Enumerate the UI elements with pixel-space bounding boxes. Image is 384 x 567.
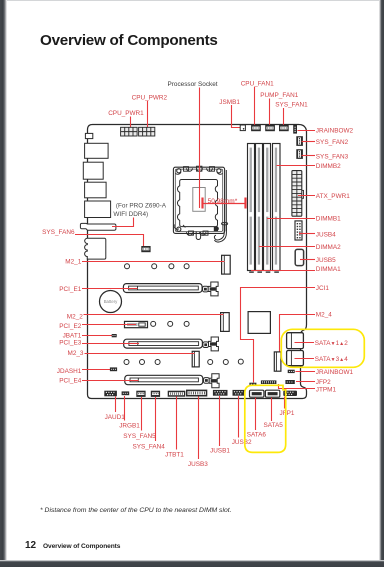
- svg-text:SYS_FAN1: SYS_FAN1: [275, 102, 308, 109]
- slot PCI_E3: [124, 339, 203, 348]
- svg-text:PCI_E2: PCI_E2: [59, 323, 81, 330]
- slot PCI_E1: [123, 284, 202, 293]
- svg-text:SATA▼1▲2: SATA▼1▲2: [315, 340, 348, 347]
- slot PCI_E2: [125, 321, 148, 327]
- wire PCI_E1: [82, 288, 138, 290]
- wire PCI_E4: [82, 380, 139, 382]
- svg-text:JUSB3: JUSB3: [188, 461, 208, 468]
- svg-text:50.98mm*: 50.98mm*: [208, 198, 238, 205]
- connector PCI_E1 pill: [203, 286, 209, 292]
- connector JUSB1: [213, 390, 228, 396]
- svg-text:CPU_PWR1: CPU_PWR1: [108, 110, 144, 117]
- motherboard outline: [88, 125, 307, 399]
- highlight SATA1-4: [281, 329, 364, 367]
- connector M2_2: [221, 313, 230, 332]
- page number: [25, 540, 36, 551]
- wire JBAT1: [82, 335, 112, 337]
- svg-text:(For PRO Z690-A: (For PRO Z690-A: [116, 203, 167, 210]
- wire SYS_FAN6: [75, 235, 144, 247]
- svg-text:DIMMB1: DIMMB1: [316, 216, 341, 223]
- wire M2_4: [280, 315, 316, 353]
- connector SATA6: [250, 390, 264, 397]
- connector JUSB2: [233, 390, 245, 396]
- wire ATX_PWR1: [298, 195, 315, 197]
- wire SYS_FAN5: [141, 397, 143, 431]
- svg-text:DIMMB2: DIMMB2: [316, 163, 341, 170]
- svg-text:JTBT1: JTBT1: [165, 452, 184, 459]
- cpu socket U1: [173, 166, 227, 242]
- wire CPU_PWR1: [130, 117, 132, 132]
- latch PCI_E3: [209, 337, 219, 351]
- svg-text:JSMB1: JSMB1: [219, 99, 240, 106]
- audio block: [85, 238, 106, 259]
- antenna connector: [80, 223, 116, 230]
- wire JTPM1: [279, 384, 316, 389]
- wire SYS_FAN1: [283, 108, 285, 126]
- io block display: [85, 201, 111, 218]
- wire JRAINBOW1: [296, 371, 316, 373]
- svg-text:PCI_E3: PCI_E3: [59, 339, 81, 346]
- svg-text:PCI_E1: PCI_E1: [59, 286, 81, 293]
- svg-text:SYS_FAN3: SYS_FAN3: [316, 154, 349, 161]
- wire SYS_FAN4: [155, 397, 157, 441]
- svg-text:CPU_FAN1: CPU_FAN1: [241, 81, 274, 88]
- svg-text:DIMMA1: DIMMA1: [316, 266, 341, 273]
- connector SYS_FAN4: [151, 391, 160, 397]
- screw holes row1: [125, 264, 190, 269]
- svg-text:JTPM1: JTPM1: [316, 386, 337, 393]
- highlight SATA5 SATA6: [245, 385, 286, 452]
- wire M2_2: [84, 314, 224, 316]
- connector SYS_FAN2: [296, 136, 303, 146]
- connector JUSB3: [186, 390, 207, 397]
- svg-text:JUSB2: JUSB2: [232, 439, 252, 446]
- wire JTBT1: [176, 397, 178, 450]
- wire CPU_FAN1: [254, 87, 256, 126]
- screw holes row2: [151, 321, 189, 326]
- top hairline: [0, 0, 384, 1]
- svg-text:JRAINBOW2: JRAINBOW2: [316, 127, 354, 134]
- dimension 50.98mm: [203, 198, 246, 209]
- wire DIMMB1: [267, 218, 315, 220]
- title: [40, 32, 218, 49]
- connector SATA5: [265, 390, 279, 397]
- wire wifi antenna: [112, 218, 134, 227]
- svg-text:CPU_PWR2: CPU_PWR2: [132, 94, 168, 101]
- connector JSMB1: [240, 125, 245, 131]
- svg-text:M2_1: M2_1: [65, 259, 81, 266]
- wire SYS_FAN2: [302, 141, 316, 143]
- wire SYS_FAN3: [302, 155, 316, 157]
- connector SYS_FAN3: [296, 149, 303, 159]
- wire JUSB4: [299, 233, 315, 235]
- svg-text:Battery: Battery: [104, 299, 118, 304]
- connector PUMP_FAN1: [265, 125, 275, 131]
- connector SYS_FAN6: [141, 246, 150, 252]
- wire SATA 3 4: [295, 358, 315, 360]
- slot PCI_E4: [125, 375, 203, 384]
- connector JTBT1: [168, 391, 186, 397]
- svg-text:JCI1: JCI1: [316, 285, 330, 292]
- svg-text:WIFI DDR4): WIFI DDR4): [113, 211, 148, 218]
- connector JRAINBOW1: [288, 370, 295, 373]
- page frame right: [379, 0, 384, 567]
- battery BT1: [100, 291, 122, 313]
- wire JUSB5: [300, 259, 315, 261]
- connector PCI_E4 pill: [204, 378, 210, 384]
- svg-text:SYS_FAN2: SYS_FAN2: [316, 139, 349, 146]
- wire JRAINBOW2: [298, 130, 316, 132]
- svg-text:ATX_PWR1: ATX_PWR1: [316, 193, 350, 200]
- connector SATA3 SATA4: [287, 351, 304, 366]
- connector JTPM1: [261, 380, 277, 384]
- svg-text:JUSB5: JUSB5: [316, 257, 336, 264]
- connector JFP2: [285, 380, 294, 384]
- svg-text:JRAINBOW1: JRAINBOW1: [316, 369, 354, 376]
- wire JSMB1: [232, 105, 241, 128]
- io block lan: [83, 162, 103, 179]
- wire JAUD1: [115, 397, 117, 413]
- connector JRGB1: [122, 391, 130, 395]
- wire JUSB1: [219, 396, 221, 446]
- connector JBAT1: [112, 334, 117, 337]
- svg-text:JDASH1: JDASH1: [57, 368, 82, 375]
- connector CPU_PWR1: [121, 127, 138, 136]
- wire PCI_E3: [82, 343, 139, 345]
- wire DIMMA2: [259, 246, 315, 248]
- latch PCI_E1: [208, 282, 218, 296]
- connector JDASH1: [110, 367, 117, 371]
- svg-text:PUMP_FAN1: PUMP_FAN1: [260, 92, 298, 99]
- svg-text:DIMMA2: DIMMA2: [316, 244, 341, 251]
- wire M2_1: [82, 261, 225, 263]
- wire JCI1: [241, 288, 316, 383]
- wire JDASH1: [82, 369, 110, 371]
- wire Processor Socket: [199, 88, 201, 209]
- connector JFP1: [283, 391, 297, 396]
- svg-text:M2_4: M2_4: [316, 312, 332, 319]
- connector ATX_PWR1: [292, 171, 304, 217]
- latch PCI_E4: [209, 374, 219, 388]
- svg-text:Processor Socket: Processor Socket: [168, 81, 218, 88]
- connector M2_3: [192, 351, 199, 367]
- svg-text:JFP1: JFP1: [280, 410, 295, 417]
- wire JUSB3: [198, 397, 200, 460]
- svg-text:JUSB4: JUSB4: [316, 232, 336, 239]
- io tab top: [85, 133, 92, 138]
- connector JUSB5: [295, 249, 303, 265]
- page frame left: [0, 0, 7, 567]
- wire DIMMB2: [277, 165, 316, 167]
- wire SATA6: [255, 398, 257, 431]
- svg-text:JRGB1: JRGB1: [119, 422, 140, 429]
- wire CPU_PWR2: [147, 101, 149, 133]
- connector JCI1: [249, 383, 256, 386]
- page frame bottom: [0, 560, 384, 567]
- svg-text:M2_3: M2_3: [68, 350, 84, 357]
- connector PCI_E3 pill: [203, 342, 209, 348]
- svg-text:SATA6: SATA6: [247, 431, 267, 438]
- footer section name: [43, 543, 120, 550]
- connector JRAINBOW2: [293, 125, 297, 134]
- connector SYS_FAN5: [136, 391, 145, 397]
- connector M2_4: [274, 352, 281, 371]
- wire JFP2: [296, 381, 315, 383]
- connector JUSB4: [295, 221, 302, 240]
- svg-text:SYS_FAN6: SYS_FAN6: [42, 229, 75, 236]
- wire PCI_E2: [82, 324, 136, 326]
- wire M2_3: [85, 353, 195, 355]
- connector SATA1 SATA2: [287, 333, 304, 349]
- wire JRGB1: [124, 396, 126, 421]
- svg-text:JAUD1: JAUD1: [105, 414, 126, 421]
- wire SATA 1 2: [295, 342, 315, 344]
- wire SATA5: [271, 398, 273, 422]
- connector CPU_PWR2: [139, 127, 155, 136]
- io block usb2: [85, 182, 107, 198]
- PCH chipset: [248, 312, 270, 334]
- svg-text:SYS_FAN5: SYS_FAN5: [123, 433, 156, 440]
- svg-text:M2_2: M2_2: [67, 313, 83, 320]
- svg-text:SATA▼3▲4: SATA▼3▲4: [315, 356, 348, 363]
- connector CPU_FAN1: [251, 125, 261, 131]
- svg-text:PCI_E4: PCI_E4: [59, 378, 81, 385]
- wire JUSB2: [238, 396, 240, 438]
- screw holes row3: [124, 359, 243, 364]
- connector JAUD1: [104, 391, 117, 397]
- svg-text:SYS_FAN4: SYS_FAN4: [133, 443, 166, 450]
- connector SYS_FAN1: [279, 125, 289, 131]
- wire PUMP_FAN1: [269, 99, 271, 127]
- svg-text:JFP2: JFP2: [316, 379, 331, 386]
- DIMM slot B2/B1/A2/A1 bank: [248, 144, 281, 271]
- svg-text:JUSB1: JUSB1: [210, 448, 230, 455]
- wire JFP1: [284, 397, 286, 409]
- wire DIMMA1: [251, 270, 315, 272]
- connector M2_1: [222, 255, 231, 274]
- svg-text:SATA5: SATA5: [264, 422, 284, 429]
- io block usb: [85, 143, 109, 158]
- footnote: [40, 507, 232, 514]
